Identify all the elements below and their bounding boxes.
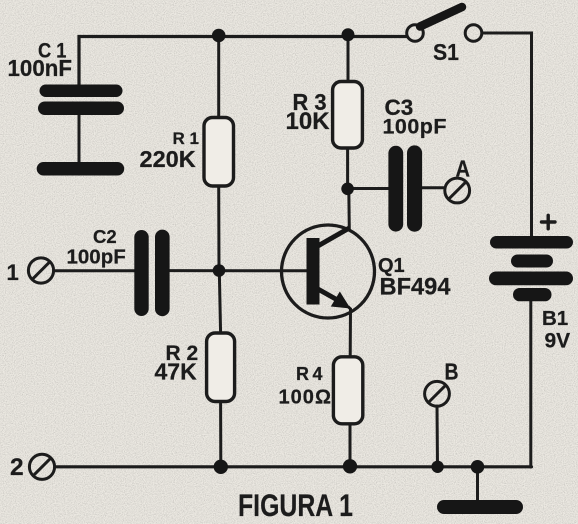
svg-text:BF494: BF494 [380, 274, 452, 301]
svg-text:10K: 10K [286, 108, 331, 135]
svg-text:A: A [456, 156, 471, 182]
svg-text:100nF: 100nF [8, 55, 73, 81]
svg-text:2: 2 [10, 454, 24, 481]
svg-text:B1: B1 [542, 307, 568, 330]
svg-text:100pF: 100pF [383, 115, 447, 139]
svg-text:1: 1 [7, 260, 19, 285]
svg-text:47K: 47K [155, 359, 198, 385]
svg-text:S1: S1 [433, 39, 459, 65]
svg-text:C2: C2 [93, 226, 117, 247]
svg-text:220K: 220K [140, 146, 196, 172]
svg-text:9V: 9V [545, 330, 571, 353]
svg-text:100Ω: 100Ω [279, 386, 332, 408]
svg-text:100pF: 100pF [67, 246, 126, 269]
svg-text:B: B [445, 359, 459, 385]
svg-text:FIGURA 1: FIGURA 1 [238, 487, 353, 523]
